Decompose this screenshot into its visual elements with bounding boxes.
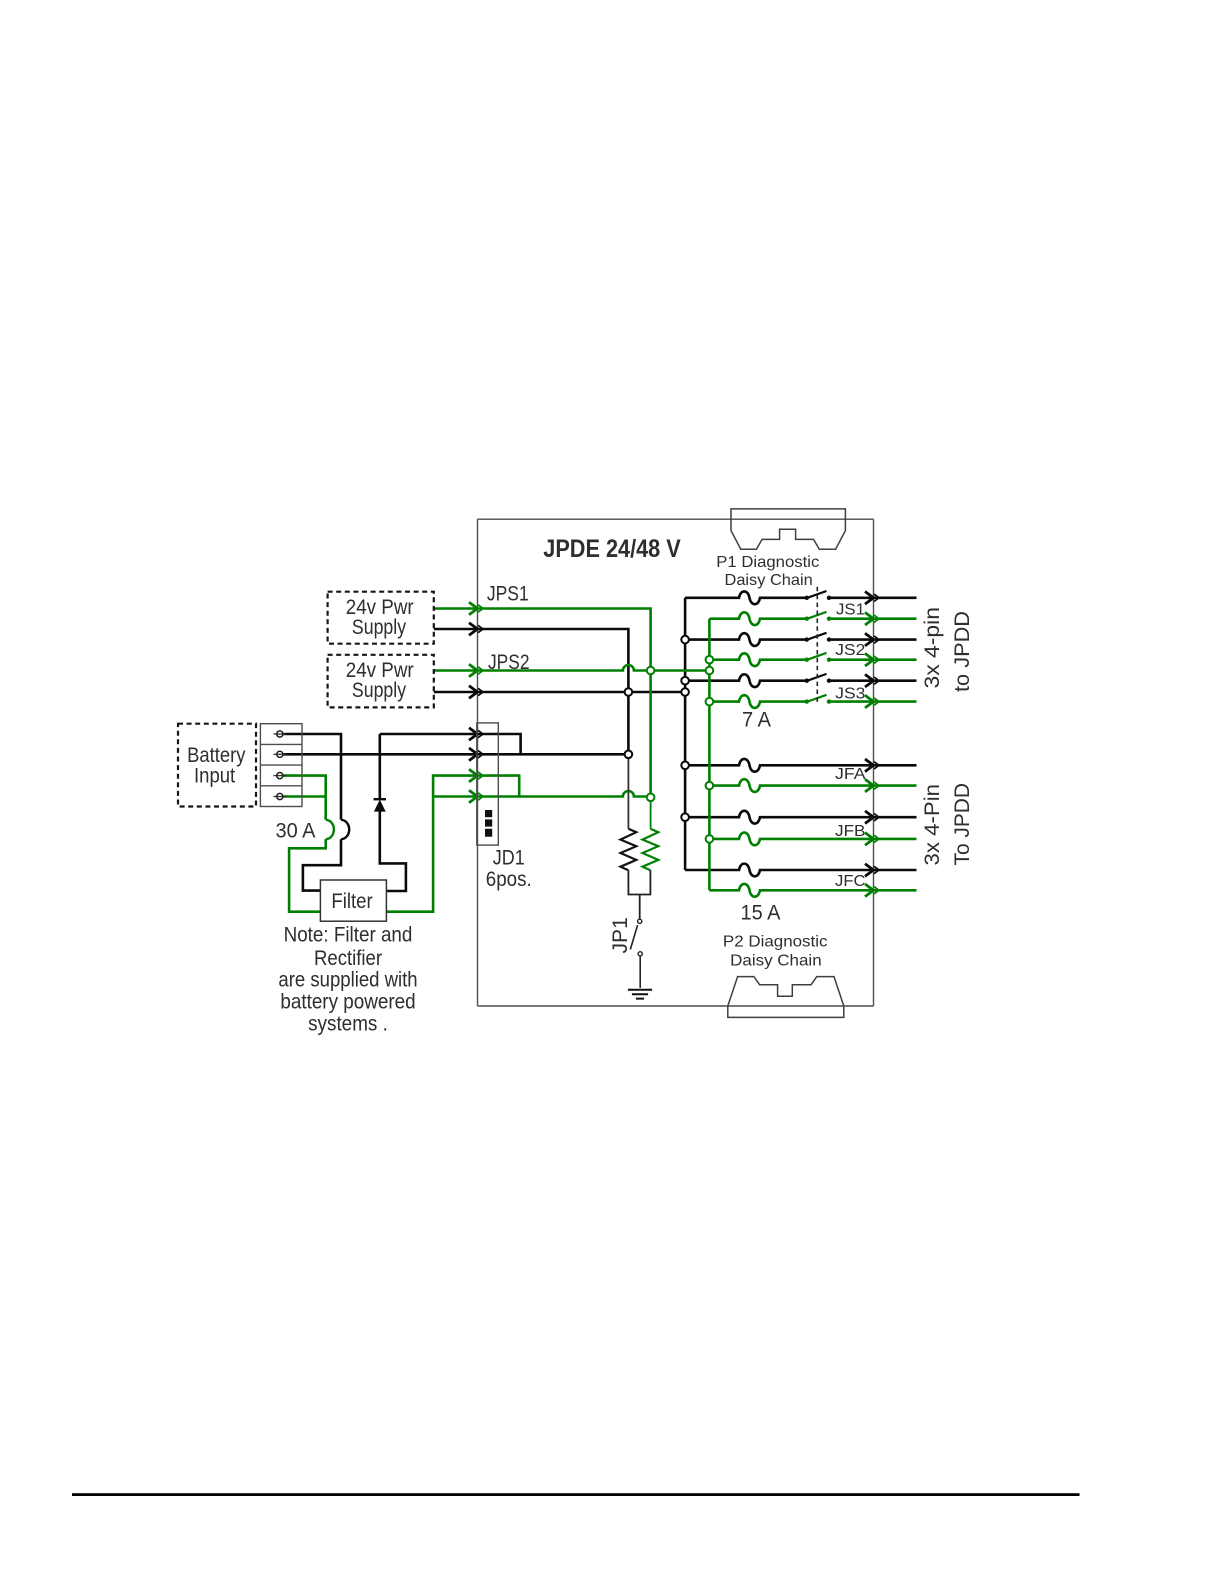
wire+fuse JFB black row (15A) bbox=[685, 811, 916, 824]
diode D1 triangle bbox=[374, 800, 386, 812]
svg-text:Input: Input bbox=[194, 765, 235, 788]
terminal 3 screw bbox=[274, 775, 287, 777]
wire Filter right green riser to JD1 pins 3-4 bbox=[386, 776, 477, 912]
arrow JPS2 black input bbox=[469, 686, 478, 699]
wire resistor bottom U bbox=[628, 870, 650, 919]
node green fuse bus / JFA green bbox=[706, 782, 714, 790]
arrow JS1 green output bbox=[865, 612, 874, 625]
svg-text:Battery: Battery bbox=[187, 744, 246, 767]
switch JS1 green blade bbox=[806, 612, 827, 619]
svg-text:P2 Diagnostic: P2 Diagnostic bbox=[723, 933, 828, 950]
node green fuse bus / JPS2 green bbox=[706, 667, 714, 675]
arrow JS2 green output bbox=[865, 653, 874, 666]
wire battery terminal 3 to 30A fuse bbox=[283, 776, 326, 820]
fuse 30A green clip bbox=[326, 820, 334, 839]
resistor R-black zigzag bbox=[621, 829, 637, 871]
box 24v Pwr Supply 2 (dashed) bbox=[328, 655, 434, 708]
node green bus / JD1 green line bbox=[647, 794, 655, 802]
svg-text:Daisy Chain: Daisy Chain bbox=[730, 952, 822, 969]
wire green fuse-bank vertical bus bbox=[708, 619, 711, 891]
wire JPS2 black: supply2 to fuse-bank bus bbox=[434, 691, 685, 694]
arrow JD1 pin2 input bbox=[469, 748, 478, 761]
svg-text:systems .: systems . bbox=[308, 1013, 388, 1036]
JPDE enclosure box bbox=[478, 519, 874, 1006]
svg-text:Note: Filter and: Note: Filter and bbox=[284, 924, 413, 947]
wire+fuse JFC green row bbox=[709, 884, 916, 897]
svg-text:JFA: JFA bbox=[835, 766, 866, 783]
switch JS3 green blade bbox=[806, 695, 827, 702]
node fuse bus / JFB black bbox=[681, 813, 689, 821]
resistor R-black lead bbox=[627, 754, 629, 828]
svg-text:15 A: 15 A bbox=[741, 902, 781, 925]
svg-text:JPS1: JPS1 bbox=[487, 583, 529, 606]
switch JS2 black contacts bbox=[805, 637, 809, 641]
wire JD1 pin3 jog and pin4 line with hop bbox=[478, 776, 651, 797]
switch JS3 black contacts bbox=[805, 679, 809, 683]
svg-text:To JPDD: To JPDD bbox=[951, 783, 974, 866]
connector P1 Diagnostic Daisy Chain (top plug outline) bbox=[731, 509, 845, 549]
box Battery Input (dashed) bbox=[178, 724, 256, 807]
wire JPS1 black: supply1 to vertical bus bbox=[434, 629, 629, 754]
arrow JFB green output bbox=[865, 833, 874, 846]
svg-text:battery powered: battery powered bbox=[280, 991, 415, 1014]
wire+fuse JS2 green row bbox=[709, 653, 916, 666]
resistor R-green lead bbox=[650, 797, 652, 828]
wire battery terminal 2 to JD1 pin2 bbox=[283, 753, 628, 756]
terminal 4 screw bbox=[274, 796, 287, 798]
terminal 1 screw bbox=[274, 733, 287, 735]
wire diode to Filter right bbox=[380, 811, 406, 891]
wire+fuse JFA green row bbox=[709, 779, 916, 792]
arrow JFC green output bbox=[865, 884, 874, 897]
wire black fuse-bank vertical bus bbox=[684, 598, 687, 870]
svg-text:to JPDD: to JPDD bbox=[951, 611, 974, 692]
connector JD1 6pos body bbox=[477, 723, 499, 845]
svg-text:JS3: JS3 bbox=[835, 686, 865, 703]
svg-text:are supplied with: are supplied with bbox=[278, 969, 417, 992]
box Filter bbox=[320, 880, 386, 921]
svg-text:P1 Diagnostic: P1 Diagnostic bbox=[716, 554, 819, 571]
node fuse bus / JFA black bbox=[681, 762, 689, 770]
svg-text:7 A: 7 A bbox=[742, 709, 771, 732]
svg-text:30 A: 30 A bbox=[276, 820, 316, 843]
arrow JS1 black output bbox=[865, 592, 874, 605]
wire+fuse JS2 black row bbox=[685, 633, 916, 646]
arrow JD1 pin3 input bbox=[469, 769, 478, 782]
jumper JP1 blade bbox=[630, 925, 640, 988]
switch JS2 black blade bbox=[806, 633, 827, 640]
wire+fuse JFC black row (15A) bbox=[685, 864, 916, 877]
svg-text:JPS2: JPS2 bbox=[488, 651, 530, 674]
svg-text:JFC: JFC bbox=[835, 873, 866, 890]
wire+fuse JS3 black row bbox=[685, 674, 916, 687]
wire JD1 pin1 jog and diode branch bbox=[380, 734, 521, 799]
wire+fuse JS1 black row bbox=[685, 591, 916, 604]
node fuse bus / JS2 black bbox=[681, 636, 689, 644]
switch gang dashed link bbox=[816, 587, 818, 704]
node fuse bus / JS3 black bbox=[681, 677, 689, 685]
svg-text:6pos.: 6pos. bbox=[486, 868, 532, 891]
resistor R-green zigzag bbox=[643, 829, 659, 871]
wire+fuse JS3 green row bbox=[709, 695, 916, 708]
svg-text:Daisy Chain: Daisy Chain bbox=[725, 572, 813, 589]
switch JS1 green contacts bbox=[805, 617, 809, 621]
svg-text:JPDE 24/48 V: JPDE 24/48 V bbox=[543, 535, 681, 563]
wire+fuse JS1 green row bbox=[709, 612, 916, 625]
wire battery terminal 4 join bbox=[283, 795, 326, 798]
switch JS3 green contacts bbox=[805, 699, 809, 703]
node green fuse bus / JS3 green bbox=[706, 698, 714, 706]
switch JS1 black contacts bbox=[805, 596, 809, 600]
arrow JFA green output bbox=[865, 779, 874, 792]
switch JS3 black blade bbox=[806, 674, 827, 681]
box 24v Pwr Supply 1 (dashed) bbox=[328, 592, 434, 644]
switch JS2 green contacts bbox=[805, 658, 809, 662]
arrow JD1 pin1 input bbox=[469, 728, 478, 741]
arrow JFC black output bbox=[865, 864, 874, 877]
wire battery terminal 1 to 30A fuse bbox=[283, 734, 341, 820]
node green fuse bus / JFB green bbox=[706, 835, 714, 843]
arrow JPS2 green input bbox=[469, 664, 478, 677]
node black bus / JPS2 bbox=[625, 688, 633, 696]
node green bus / JPS2 green bbox=[647, 667, 655, 675]
svg-text:JS2: JS2 bbox=[835, 642, 865, 659]
wire JPS1 green: supply1 to center bus bbox=[434, 609, 651, 798]
bottom rule bbox=[72, 1493, 1080, 1496]
arrow JFA black output bbox=[865, 759, 874, 772]
wire 30A fuse to Filter left bbox=[303, 839, 341, 890]
svg-text:JP1: JP1 bbox=[609, 917, 632, 953]
svg-text:JFB: JFB bbox=[835, 823, 866, 840]
terminal block TB1 bbox=[260, 724, 302, 807]
connector JD1 key pins bbox=[485, 810, 492, 817]
arrow JPS1 black input bbox=[469, 623, 478, 636]
svg-text:Supply: Supply bbox=[352, 679, 407, 702]
connector P2 Diagnostic Daisy Chain (bottom plug outline) bbox=[728, 977, 844, 1018]
arrow JS3 black output bbox=[865, 674, 874, 687]
svg-text:3x 4-pin: 3x 4-pin bbox=[921, 607, 944, 689]
arrow JS2 black output bbox=[865, 633, 874, 646]
arrow JFB black output bbox=[865, 811, 874, 824]
svg-text:Rectifier: Rectifier bbox=[314, 947, 382, 970]
switch JS1 black blade bbox=[806, 591, 827, 598]
svg-text:Filter: Filter bbox=[331, 890, 372, 913]
wire JPS2 green with hop over black bus bbox=[434, 665, 710, 671]
arrow JD1 pin4 input bbox=[469, 790, 478, 803]
arrow JPS1 green input bbox=[469, 602, 478, 615]
ground symbol bbox=[628, 990, 652, 999]
fuse 30A black clip bbox=[341, 820, 349, 839]
switch JS2 green blade bbox=[806, 653, 827, 660]
jumper JP1 contacts bbox=[638, 919, 642, 923]
wire+fuse JFA black row (15A) bbox=[685, 759, 916, 772]
terminal 2 screw bbox=[274, 753, 287, 755]
node green fuse bus / JS2 green bbox=[706, 656, 714, 664]
node black bus / JD1 line bbox=[625, 751, 633, 759]
svg-text:3x 4-Pin: 3x 4-Pin bbox=[921, 784, 944, 866]
arrow JS3 green output bbox=[865, 695, 874, 708]
wire 30A green fuse to Filter left bbox=[289, 839, 326, 912]
diode D1 cathode bar bbox=[374, 798, 386, 800]
svg-text:JD1: JD1 bbox=[493, 847, 525, 870]
svg-text:Supply: Supply bbox=[352, 616, 407, 639]
node fuse bus / JPS2 black bbox=[681, 688, 689, 696]
wire+fuse JFB green row bbox=[709, 833, 916, 846]
svg-text:JS1: JS1 bbox=[836, 602, 865, 619]
